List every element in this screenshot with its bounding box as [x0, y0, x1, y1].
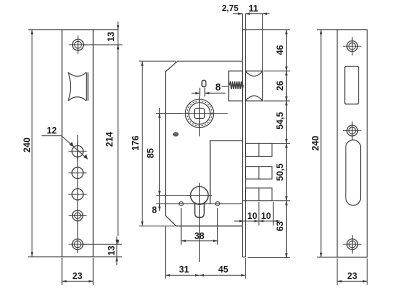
deadbolt lamination 2	[246, 167, 273, 179]
svg-text:8: 8	[152, 205, 157, 215]
left plate top screw hole	[69, 36, 87, 54]
fixing hole right	[216, 202, 220, 206]
dim 240 right	[317, 30, 337, 258]
left plate centerline	[77, 135, 79, 253]
follower (square spindle hub)	[183, 96, 228, 136]
svg-text:26: 26	[275, 81, 285, 91]
MIDDLE VIEW	[156, 14, 272, 263]
svg-text:13: 13	[106, 32, 116, 42]
svg-text:240: 240	[22, 137, 32, 152]
hole 3	[68, 189, 86, 200]
screw hole 4	[69, 210, 87, 221]
right chain extension lines	[246, 30, 290, 258]
dim 8 follower	[192, 88, 226, 97]
cylinder horizontal centerline	[156, 194, 212, 196]
small slot above follower	[202, 80, 206, 86]
svg-text:11: 11	[249, 3, 259, 13]
right view dimensions	[311, 30, 368, 285]
fixing holes centerline	[156, 203, 242, 205]
small pill slot left side	[173, 133, 178, 136]
bottom screw hole 5	[69, 239, 87, 250]
spring box	[229, 71, 243, 101]
dim 10 10	[234, 202, 280, 226]
svg-text:2,75: 2,75	[222, 3, 239, 13]
middle view dimensions	[130, 3, 290, 278]
strike plate middle screw hole	[343, 121, 361, 139]
svg-text:13: 13	[107, 246, 117, 256]
fixing hole left	[179, 202, 183, 206]
svg-text:31: 31	[179, 264, 189, 274]
roller bolt front view	[68, 72, 88, 101]
svg-text:45: 45	[218, 264, 228, 274]
dimension lines left view	[22, 22, 123, 286]
strike plate top screw hole	[343, 37, 361, 55]
svg-text:46: 46	[275, 45, 285, 55]
svg-text:12: 12	[47, 126, 57, 136]
hole with leader (12)	[68, 142, 86, 161]
deadbolt slot (obround)	[346, 140, 361, 205]
deadbolt lamination 1	[246, 143, 273, 156]
dim 214	[117, 45, 119, 245]
dim 38	[181, 208, 217, 245]
dim 85	[156, 108, 183, 211]
leader 12	[42, 136, 88, 160]
latch opening	[345, 66, 359, 104]
deadbolt chamber inside case	[210, 141, 242, 204]
svg-text:10: 10	[261, 211, 271, 221]
svg-text:8: 8	[215, 82, 221, 93]
left faceplate outline	[62, 30, 93, 257]
svg-text:214: 214	[105, 132, 115, 147]
euro cylinder hole	[191, 183, 209, 262]
svg-text:54,5: 54,5	[275, 112, 285, 130]
RIGHT VIEW	[337, 30, 367, 258]
lock case outline	[166, 61, 243, 226]
latch spring	[229, 81, 243, 89]
dim 13 top	[83, 22, 123, 54]
dim 176	[139, 61, 176, 226]
hole 2	[68, 167, 86, 178]
latch centerline stub	[222, 85, 229, 87]
svg-text:10: 10	[247, 211, 257, 221]
dim 13 bottom	[83, 237, 122, 266]
dim 240 left	[28, 30, 62, 257]
svg-text:38: 38	[194, 231, 204, 241]
right chain dimension line	[285, 30, 287, 258]
svg-text:23: 23	[347, 271, 357, 281]
latch bolt (roller) side view	[246, 71, 263, 101]
svg-text:240: 240	[311, 136, 321, 151]
dim 2,75 / 11 top	[233, 13, 270, 72]
dim 8 cylinder	[158, 204, 160, 209]
svg-text:50,5: 50,5	[275, 163, 285, 181]
dim 23 left bottom	[62, 258, 93, 285]
right strike plate outline	[337, 30, 367, 258]
lock faceplate edge-on	[243, 14, 246, 258]
deadbolt lamination 3	[243, 188, 273, 201]
svg-text:176: 176	[130, 136, 140, 151]
svg-text:85: 85	[145, 148, 155, 158]
svg-text:23: 23	[72, 271, 82, 281]
svg-text:63: 63	[275, 221, 285, 231]
dim 23 right	[337, 259, 367, 286]
strike plate bottom screw hole	[343, 235, 361, 253]
dim 31 / 45	[166, 227, 246, 279]
